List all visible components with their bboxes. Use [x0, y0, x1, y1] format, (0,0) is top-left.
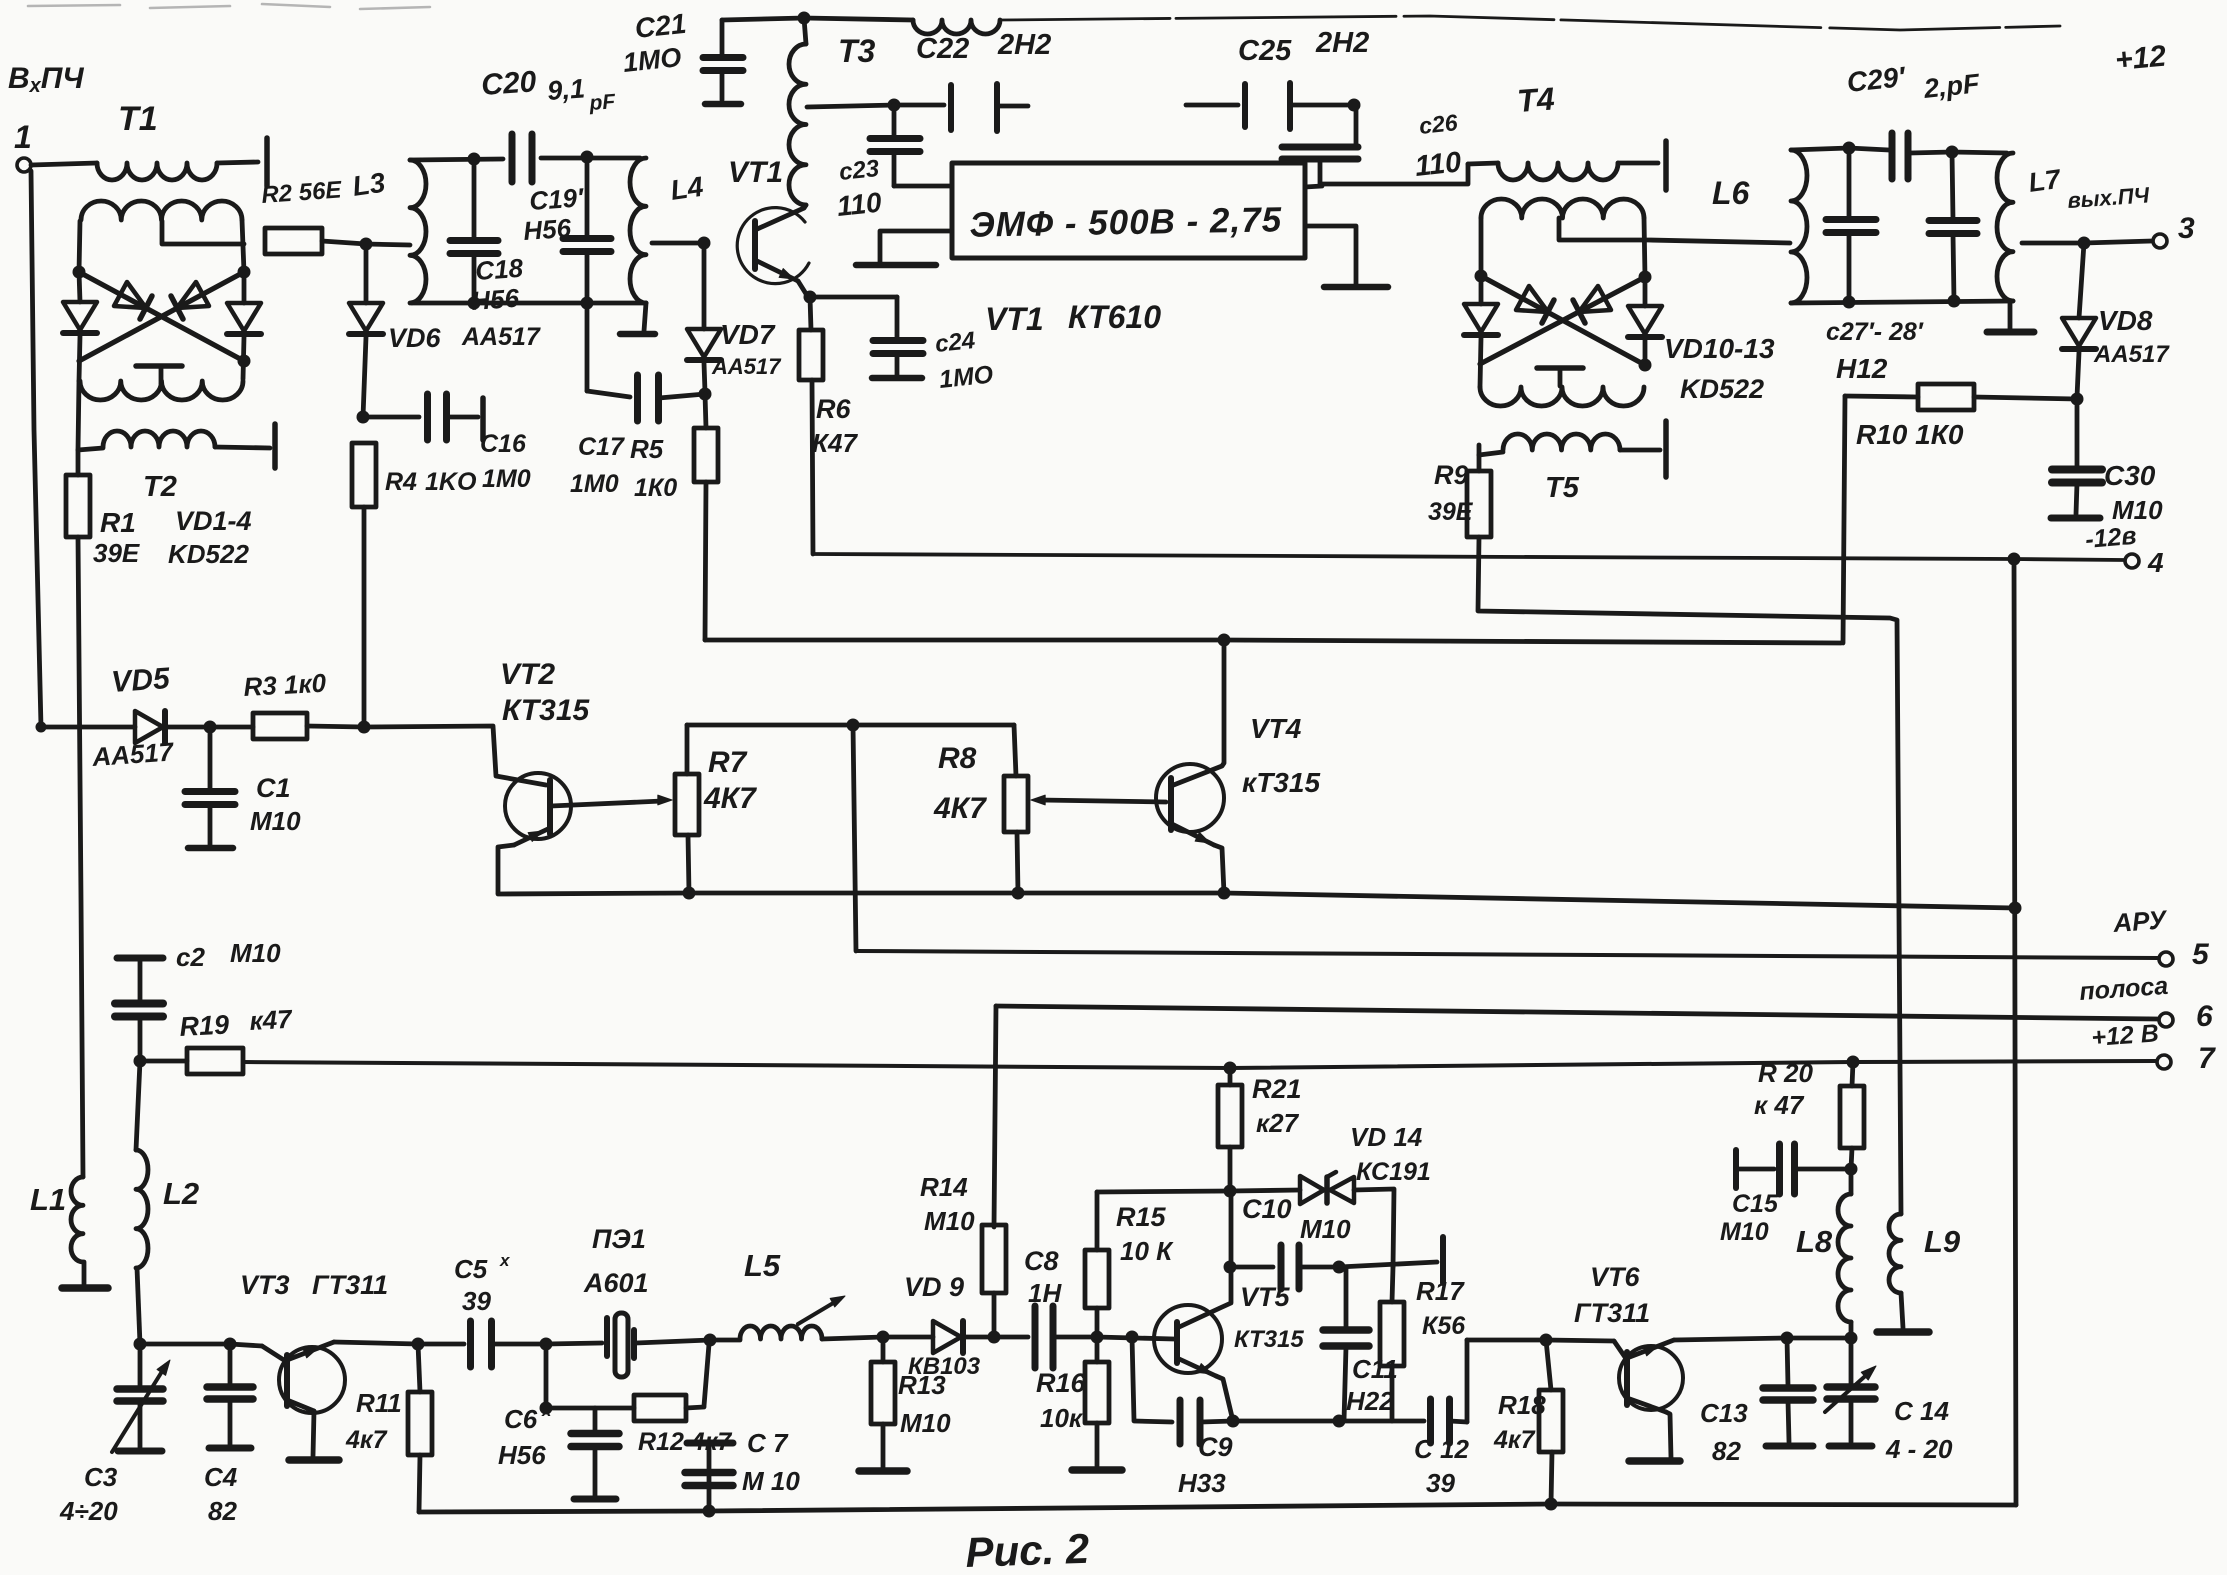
node PE1/L5/C7: [704, 1334, 717, 1347]
svg-text:ГТ311: ГТ311: [1574, 1298, 1650, 1328]
node R12 left: [540, 1402, 553, 1415]
resistor R12: [634, 1395, 686, 1421]
ring2 diagonal wire: [1481, 276, 1645, 365]
resistor R14: [982, 1225, 1006, 1293]
capacitor C29 (series in rail): [1889, 133, 1896, 179]
capacitor C18: [472, 159, 477, 241]
svg-text:C22: C22: [916, 33, 969, 65]
resistor R15: [1085, 1250, 1109, 1308]
node ring2 left: [1475, 270, 1488, 283]
resistor R3: [210, 725, 253, 730]
svg-text:C19′: C19′: [528, 182, 586, 216]
diode VD5: [41, 725, 135, 730]
svg-text:1M0: 1M0: [482, 465, 531, 493]
svg-text:C29′: C29′: [1845, 61, 1907, 98]
ground under VT6: [1629, 1457, 1680, 1465]
node T3 tap: [888, 99, 901, 112]
wire T3 tap to C22/C23: [807, 105, 894, 107]
inductor L2: [136, 1061, 140, 1150]
jumper arrow over L5: [798, 1299, 840, 1324]
+12V wire to terminal 7: [1853, 1061, 2156, 1062]
svg-text:М 10: М 10: [742, 1466, 800, 1496]
EMF output wire: [1305, 186, 1322, 187]
node ring1 bottom-right: [238, 355, 251, 368]
svg-text:VТ1: VТ1: [985, 301, 1044, 337]
svg-text:Н12: Н12: [1836, 353, 1888, 384]
node C2/R19/L2: [134, 1055, 147, 1068]
ring2 right side: [1644, 218, 1645, 277]
ring diagonal wire: [79, 272, 244, 361]
svg-text:1К0: 1К0: [634, 474, 677, 502]
ARU line down from R7/R8 rail: [853, 725, 856, 951]
svg-text:C 14: C 14: [1894, 1396, 1949, 1426]
node VD9/R13: [877, 1331, 890, 1344]
resistor R18: [1539, 1390, 1563, 1452]
ground under R16: [1072, 1466, 1122, 1474]
svg-text:L8: L8: [1796, 1224, 1833, 1259]
node C10 right: [1333, 1261, 1346, 1274]
svg-text:C18: C18: [474, 253, 524, 286]
wire C13 to C14 node: [1787, 1336, 1851, 1341]
filter block EMF-500V-2.75: [952, 163, 1305, 258]
node L8 bottom / C14: [1845, 1332, 1858, 1345]
svg-text:1KO: 1KO: [425, 468, 477, 496]
resistor R19: [187, 1048, 243, 1074]
wire: [31, 163, 97, 165]
wire R7 top rail to R8 top: [687, 723, 1014, 728]
ring VD1-4 right side: [242, 220, 244, 272]
svg-text:KD522: KD522: [1680, 374, 1764, 404]
svg-text:К47: К47: [812, 428, 858, 458]
svg-text:39: 39: [1426, 1468, 1455, 1498]
svg-text:Т1: Т1: [118, 100, 158, 138]
svg-text:C3: C3: [84, 1462, 118, 1492]
inductor L3: [410, 160, 426, 303]
node C5/C6: [540, 1338, 553, 1351]
transformer T5 winding: [1477, 445, 1482, 455]
capacitor C2: [117, 955, 163, 962]
svg-text:VТ5: VТ5: [1240, 1282, 1291, 1312]
svg-text:VD5: VD5: [110, 662, 172, 699]
collector rail to R15: [1097, 1191, 1230, 1192]
svg-text:1MO: 1MO: [621, 42, 682, 78]
node C19 bottom: [581, 297, 594, 310]
ring2 center tap T mark: [1537, 365, 1583, 371]
ring modulator bottom winding: [80, 381, 243, 400]
svg-text:1Н: 1Н: [1028, 1278, 1062, 1308]
polosa wire corner: [996, 1006, 2158, 1019]
ground under L9: [1877, 1328, 1929, 1336]
node VD6/R4/C16: [357, 411, 370, 424]
node R20 top: [1847, 1056, 1860, 1069]
wire R2 to tank L3: [322, 241, 366, 244]
VT4 wiper wire to R8 with arrow: [1040, 800, 1166, 802]
svg-text:82: 82: [208, 1496, 237, 1526]
capacitor C13: [1787, 1338, 1788, 1386]
svg-text:Н22: Н22: [1346, 1386, 1394, 1416]
svg-text:C10: C10: [1242, 1194, 1292, 1224]
svg-text:39E: 39E: [1428, 498, 1474, 526]
svg-text:C30: C30: [2104, 460, 2156, 491]
svg-text:L5: L5: [744, 1248, 781, 1283]
svg-text:R16: R16: [1036, 1368, 1087, 1398]
capacitor C12: [1427, 1399, 1434, 1443]
VT1 emitter with arrow: [755, 260, 798, 281]
VT6 base lead: [1614, 1341, 1627, 1360]
resistor R20: [1840, 1086, 1864, 1148]
svg-text:Т3: Т3: [838, 33, 876, 69]
capacitor C21: [720, 20, 725, 56]
svg-text:c27′- 28′: c27′- 28′: [1826, 318, 1924, 346]
ground under R13: [859, 1467, 907, 1475]
inductor L8: [1849, 1169, 1854, 1194]
svg-text:К56: К56: [1422, 1312, 1466, 1340]
wire C8 to VT5 base: [1097, 1337, 1174, 1339]
svg-text:М10: М10: [230, 938, 281, 968]
transformer T2 winding: [78, 448, 103, 475]
svg-text:R18: R18: [1498, 1390, 1546, 1420]
node C28 top: [1946, 146, 1959, 159]
diode VD1: [63, 302, 97, 330]
wire ring1 to R1/T2: [78, 381, 79, 450]
resistor R17: [1380, 1302, 1404, 1366]
+12V wire R21 to R20: [1230, 1062, 1853, 1068]
svg-text:7: 7: [2198, 1042, 2216, 1075]
wire terminal1 down to VD5 line: [31, 171, 41, 727]
svg-text:М10: М10: [1300, 1214, 1351, 1244]
node R3/R4: [358, 721, 371, 734]
scan artifact dashes top-left: [28, 4, 430, 9]
diode VD7: [702, 243, 707, 329]
capacitor C15: [1733, 1150, 1739, 1188]
resistor R11: [408, 1392, 432, 1455]
diode VD8: [2079, 243, 2084, 318]
wire R12 up to crystal node: [704, 1344, 709, 1406]
svg-text:ВxПЧ: ВxПЧ: [8, 62, 84, 97]
polosa vertical wire down to VD9 node: [994, 1006, 996, 1227]
node VT5 emitter: [1227, 1415, 1240, 1428]
VT3 collector with arrow: [287, 1342, 334, 1360]
capacitor C24: [810, 295, 897, 300]
svg-text:L7: L7: [2027, 164, 2064, 198]
svg-text:pF: pF: [588, 90, 617, 115]
node R18 top: [1540, 1334, 1553, 1347]
svg-text:к27: к27: [1256, 1108, 1300, 1138]
wire ring2 center tap to L6: [1559, 218, 1790, 243]
wire to R18/VT6: [1467, 1338, 1546, 1343]
diode VD4 on diagonal: [177, 282, 209, 308]
svg-text:C4: C4: [204, 1462, 238, 1492]
inductor L7: [1997, 153, 2013, 301]
svg-text:VD6: VD6: [388, 323, 442, 353]
svg-text:Т5: Т5: [1545, 472, 1580, 504]
svg-text:КС191: КС191: [1356, 1158, 1431, 1186]
svg-text:Н56: Н56: [498, 1440, 546, 1470]
node C19 top: [581, 151, 594, 164]
svg-text:1: 1: [14, 119, 32, 155]
transformer T3 winding: [789, 44, 806, 205]
svg-text:Н33: Н33: [1178, 1468, 1226, 1498]
svg-text:C20: C20: [480, 65, 538, 102]
node ring2 right: [1639, 271, 1652, 284]
node R8 bottom: [1012, 887, 1025, 900]
svg-text:39: 39: [462, 1286, 491, 1316]
node VT1 base: [698, 237, 711, 250]
svg-text:R7: R7: [708, 746, 748, 779]
diode VD14 (zener): [1230, 1190, 1300, 1191]
svg-text:кТ315: кТ315: [1242, 767, 1320, 798]
transistor VT6: [1619, 1346, 1683, 1410]
VT3 base lead: [262, 1346, 287, 1362]
node C25/C26: [1348, 99, 1361, 112]
node C10 left: [1224, 1261, 1237, 1274]
capacitor C20 (series in rail): [509, 134, 516, 182]
svg-text:4: 4: [2147, 547, 2164, 578]
transformer T4 winding: [1468, 163, 1498, 164]
+12V wire R19 to R21: [243, 1062, 1230, 1068]
svg-text:VD8: VD8: [2098, 305, 2153, 336]
node R2/VD6: [360, 238, 373, 251]
svg-text:110: 110: [1413, 146, 1462, 183]
svg-text:Н56: Н56: [522, 213, 572, 246]
diode VD2: [227, 303, 261, 331]
EMF lower-left pin to ground: [880, 231, 952, 262]
node VD9/C8/polosa: [988, 1331, 1001, 1344]
resistor R5: [694, 428, 718, 482]
node C28 bottom: [1948, 295, 1961, 308]
svg-text:C25: C25: [1238, 35, 1292, 67]
svg-text:L3: L3: [351, 167, 388, 202]
ground under VT3: [289, 1456, 339, 1464]
right border wire down: [2014, 559, 2016, 1505]
svg-text:R10 1К0: R10 1К0: [1856, 419, 1964, 450]
svg-text:AA517: AA517: [711, 354, 782, 379]
svg-text:R8: R8: [938, 742, 977, 775]
node C11 bottom: [1333, 1415, 1346, 1428]
+12 rail thin wire to right: [1000, 16, 2060, 30]
resistor R7 (pot): [675, 774, 699, 835]
terminal 5 ARU: [2159, 952, 2173, 966]
node C4 top: [224, 1338, 237, 1351]
svg-text:R9: R9: [1434, 460, 1469, 490]
svg-text:c23: c23: [838, 155, 881, 186]
node C13 top: [1781, 1332, 1794, 1345]
svg-text:ГТ311: ГТ311: [312, 1270, 388, 1300]
svg-text:+12: +12: [2114, 40, 2168, 77]
capacitor C30: [2075, 399, 2080, 469]
ring2 diagonal wire: [1480, 277, 1645, 364]
VT3 emitter: [287, 1400, 314, 1411]
capacitor C9: [1132, 1337, 1134, 1420]
svg-text:АРУ: АРУ: [2111, 904, 2169, 938]
tank ground stub: [644, 303, 646, 331]
wire R3 node to VT2 base: [364, 726, 546, 785]
transistor VT4: [1156, 764, 1224, 832]
svg-text:C16: C16: [480, 430, 527, 458]
node R18 bottom: [1545, 1498, 1558, 1511]
svg-text:4÷20: 4÷20: [59, 1496, 118, 1526]
wire L7 to output terminal 3: [2022, 241, 2084, 246]
VT5 collector wire: [1177, 1191, 1231, 1328]
ring2 bottom winding: [1480, 387, 1644, 406]
svg-text:C 12: C 12: [1414, 1434, 1469, 1464]
capacitor C7: [687, 1440, 733, 1447]
svg-text:1М0: 1М0: [570, 470, 619, 498]
svg-text:R5: R5: [630, 434, 664, 464]
svg-text:L6: L6: [1712, 175, 1750, 211]
emitter/AGC lower rail: [498, 893, 689, 894]
node AGC rail / right border: [2009, 902, 2022, 915]
svg-text:c24: c24: [934, 327, 977, 358]
ring modulator VD1-4 top winding (T1 secondary): [81, 201, 242, 220]
svg-text:VD7: VD7: [720, 319, 776, 350]
+12 top rail: [722, 18, 804, 20]
L6 tank bottom rail: [1791, 301, 2013, 303]
svg-text:М10: М10: [924, 1206, 975, 1236]
node +12 rail / C21: [798, 12, 811, 25]
svg-text:4К7: 4К7: [703, 782, 757, 815]
node C9 branch: [1126, 1331, 1139, 1344]
node ring2 bottom-right: [1639, 359, 1652, 372]
ring2 left side: [1479, 218, 1484, 276]
capacitor C4: [228, 1344, 233, 1385]
node C18 top: [468, 153, 481, 166]
wire R1 down to L1: [78, 537, 83, 1177]
svg-text:Рис. 2: Рис. 2: [965, 1525, 1090, 1575]
wire R4 down to R3 line: [362, 507, 367, 727]
svg-text:R19: R19: [179, 1009, 230, 1042]
VT2 emitter with arrow: [514, 828, 550, 845]
svg-text:VТ4: VТ4: [1250, 713, 1302, 744]
capacitor C25: [1186, 103, 1238, 108]
node VT4 collector on rail: [1218, 634, 1231, 647]
svg-text:4к7: 4к7: [345, 1426, 388, 1454]
node VD5/C1/R3: [204, 721, 217, 734]
resistor R9: [1467, 471, 1491, 537]
T1 core bar: [264, 138, 270, 186]
svg-text:C9: C9: [1198, 1432, 1233, 1462]
resistor R13: [881, 1337, 886, 1362]
VT2 wiper wire to R7 with arrow: [551, 801, 662, 806]
node L7 output: [2078, 237, 2091, 250]
node L8 top / C15 / R20: [1845, 1163, 1858, 1176]
transistor VT3: [230, 1344, 262, 1346]
svg-text:C17: C17: [578, 433, 625, 461]
svg-text:VТ6: VТ6: [1590, 1262, 1641, 1292]
node AGC branch: [847, 719, 860, 732]
svg-text:R11: R11: [356, 1388, 402, 1418]
ARU wire to terminal 5: [856, 951, 2158, 958]
svg-text:x: x: [499, 1251, 511, 1270]
svg-text:4к7: 4к7: [1493, 1426, 1536, 1454]
VT4 emitter with arrow: [1172, 824, 1214, 845]
inductor L5: [710, 1338, 740, 1343]
capacitor C6: [593, 1408, 598, 1432]
svg-text:VТ3: VТ3: [240, 1270, 290, 1300]
ground under L1: [62, 1284, 108, 1292]
svg-text:R15: R15: [1116, 1202, 1167, 1232]
svg-text:1МО: 1МО: [938, 360, 995, 394]
transistor VT1: [737, 208, 809, 284]
T4 core bar: [1663, 141, 1669, 190]
svg-text:VТ1: VТ1: [728, 156, 783, 189]
node VD5 line corner: [36, 722, 47, 733]
wire C12 up to VT6 line: [1465, 1340, 1470, 1422]
svg-text:Т2: Т2: [143, 471, 177, 503]
diode VD13 on diagonal: [1579, 286, 1611, 312]
svg-text:L2: L2: [163, 1176, 199, 1211]
node L2 bottom: [134, 1338, 147, 1351]
resistor R4: [352, 443, 376, 507]
svg-text:C5: C5: [454, 1254, 488, 1284]
transistor VT2: [505, 773, 571, 839]
svg-text:10к: 10к: [1040, 1403, 1084, 1433]
bottom return wire: [419, 1504, 2016, 1512]
svg-text:9,1: 9,1: [546, 73, 586, 106]
diode VD6: [364, 244, 369, 303]
svg-text:4К7: 4К7: [933, 792, 987, 825]
node -12V / right border: [2008, 553, 2021, 566]
svg-text:-12в: -12в: [2084, 522, 2137, 554]
ring center tap T mark: [136, 363, 182, 369]
svg-text:R21: R21: [1252, 1074, 1302, 1104]
capacitor C11: [1344, 1267, 1349, 1328]
L6 tank top rail: [1791, 148, 1849, 150]
node VT1 emitter: [804, 291, 817, 304]
svg-text:4 - 20: 4 - 20: [1885, 1434, 1953, 1464]
svg-text:VD10-13: VD10-13: [1664, 333, 1775, 364]
node C7 bottom: [703, 1505, 716, 1518]
terminal 4: [2125, 554, 2139, 568]
svg-text:R2 56E: R2 56E: [261, 176, 344, 209]
transformer T1 primary winding: [97, 163, 217, 180]
svg-text:R14: R14: [920, 1172, 968, 1202]
node R11 top: [412, 1338, 425, 1351]
capacitor C17: [585, 303, 590, 391]
terminal 7 +12V: [2157, 1055, 2171, 1069]
resistor R8 (pot): [1004, 776, 1028, 832]
node C18 bottom: [468, 297, 481, 310]
ring modulator VD10-13 top winding: [1481, 199, 1644, 218]
capacitor C8: [994, 1335, 1028, 1340]
VT4 collector wire up to rail: [1171, 640, 1224, 786]
terminal 6 polosa: [2159, 1013, 2173, 1027]
svg-text:VТ2: VТ2: [500, 658, 555, 691]
capacitor C10: [1230, 1265, 1273, 1270]
svg-text:М10: М10: [1720, 1218, 1769, 1246]
svg-text:L1: L1: [30, 1182, 66, 1217]
inductor L4: [630, 158, 646, 303]
svg-text:L9: L9: [1924, 1224, 1961, 1259]
svg-text:2Н2: 2Н2: [997, 29, 1051, 61]
svg-text:VD1-4: VD1-4: [175, 506, 252, 536]
wire C10 node to end bar: [1339, 1262, 1437, 1267]
svg-text:x: x: [541, 1401, 553, 1420]
tank top rail: [410, 159, 503, 160]
capacitor C28: [1952, 152, 1953, 220]
svg-text:М10: М10: [900, 1408, 951, 1438]
capacitor C19: [585, 157, 590, 239]
node ring1 right: [238, 266, 251, 279]
emitter line to C12: [1233, 1419, 1339, 1424]
ring VD1-4 left side: [79, 221, 80, 272]
diode VD3 on diagonal: [114, 282, 146, 308]
inductor in +12 rail: [913, 20, 1000, 34]
capacitor C16: [363, 415, 419, 420]
capacitor C22: [894, 103, 944, 108]
svg-text:5: 5: [2192, 938, 2210, 971]
svg-text:М10: М10: [250, 806, 301, 836]
